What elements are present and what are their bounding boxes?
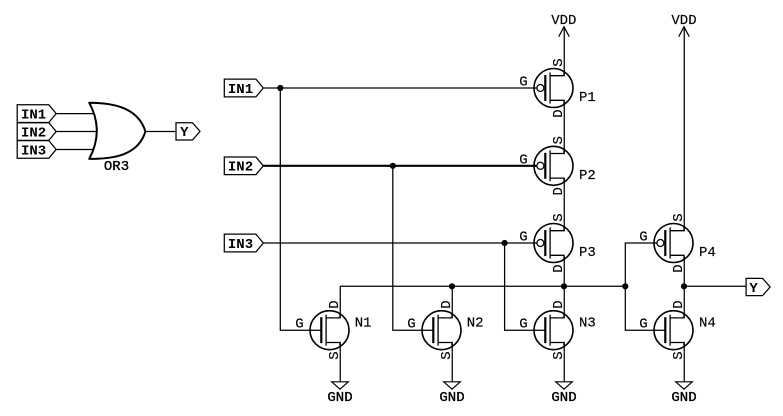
svg-text:IN3: IN3	[228, 237, 253, 253]
svg-text:G: G	[639, 317, 647, 333]
svg-text:GND: GND	[327, 390, 352, 406]
svg-text:VDD: VDD	[551, 13, 576, 29]
svg-text:N4: N4	[699, 316, 716, 332]
svg-text:D: D	[551, 109, 567, 117]
svg-text:D: D	[439, 300, 455, 308]
svg-text:IN1: IN1	[228, 82, 253, 98]
svg-text:P2: P2	[579, 168, 596, 184]
svg-text:S: S	[551, 213, 567, 221]
svg-text:S: S	[439, 351, 455, 359]
svg-text:S: S	[551, 136, 567, 144]
svg-text:G: G	[519, 75, 527, 91]
svg-text:Y: Y	[749, 281, 758, 297]
svg-text:GND: GND	[439, 390, 464, 406]
svg-text:P4: P4	[699, 245, 716, 261]
svg-text:G: G	[295, 317, 303, 333]
svg-text:IN2: IN2	[21, 125, 46, 141]
svg-text:GND: GND	[551, 390, 576, 406]
svg-text:D: D	[551, 264, 567, 272]
svg-text:P3: P3	[579, 245, 596, 261]
svg-text:IN2: IN2	[228, 160, 253, 176]
svg-text:S: S	[671, 351, 687, 359]
svg-text:N2: N2	[467, 316, 484, 332]
svg-text:D: D	[327, 300, 343, 308]
svg-text:G: G	[519, 153, 527, 169]
svg-text:S: S	[551, 58, 567, 66]
svg-text:G: G	[639, 230, 647, 246]
svg-text:N3: N3	[579, 316, 596, 332]
svg-text:G: G	[519, 317, 527, 333]
svg-text:VDD: VDD	[671, 13, 696, 29]
svg-text:G: G	[407, 317, 415, 333]
svg-text:D: D	[551, 300, 567, 308]
svg-text:IN1: IN1	[21, 107, 46, 123]
svg-text:G: G	[519, 230, 527, 246]
svg-text:GND: GND	[671, 390, 696, 406]
svg-text:IN3: IN3	[21, 143, 46, 159]
svg-text:N1: N1	[355, 316, 372, 332]
svg-text:D: D	[671, 300, 687, 308]
svg-text:OR3: OR3	[104, 159, 129, 175]
svg-text:S: S	[551, 351, 567, 359]
svg-text:S: S	[671, 213, 687, 221]
svg-text:Y: Y	[180, 125, 189, 141]
svg-text:P1: P1	[579, 90, 596, 106]
svg-text:S: S	[327, 351, 343, 359]
svg-text:D: D	[671, 264, 687, 272]
svg-text:D: D	[551, 187, 567, 195]
